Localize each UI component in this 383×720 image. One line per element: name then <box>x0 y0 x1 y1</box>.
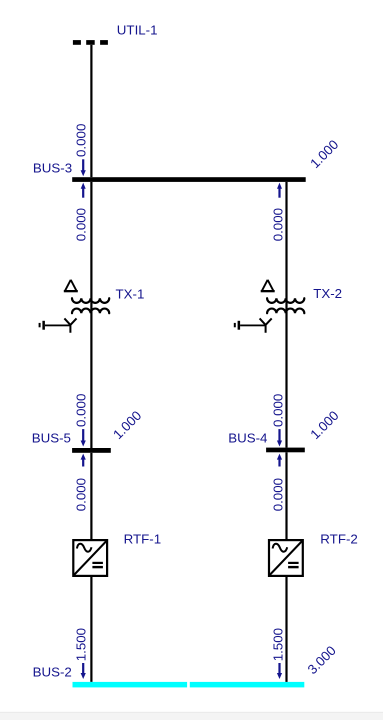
svg-text:RTF-1: RTF-1 <box>124 531 162 546</box>
flow arrow down into BUS-5 <box>81 429 86 446</box>
wye symbol TX-2 <box>260 318 272 332</box>
wire TX-1 to BUS-5 <box>90 314 92 449</box>
bus BUS-5 <box>72 448 111 453</box>
utility source UTIL-1 <box>73 40 108 45</box>
wire RTF-1 to BUS-2 <box>90 577 92 682</box>
wye symbol TX-1 <box>64 318 76 332</box>
transformer TX-2 primary winding <box>267 298 304 303</box>
ground symbol TX-1 <box>39 321 45 330</box>
wire BUS-4 to RTF-2 <box>285 452 287 539</box>
rectifier RTF-1 <box>73 540 107 576</box>
bus BUS-4 <box>266 448 305 453</box>
svg-text:UTIL-1: UTIL-1 <box>117 23 158 38</box>
flow arrow down into BUS-2 (right) <box>277 663 282 679</box>
transformer TX-2 delta symbol <box>261 280 275 293</box>
bus BUS-3 <box>72 177 306 182</box>
svg-text:0.000: 0.000 <box>271 208 286 241</box>
wire BUS-3 to TX-2 <box>285 182 287 314</box>
svg-text:BUS-5: BUS-5 <box>32 430 71 445</box>
svg-text:0.000: 0.000 <box>271 478 286 511</box>
svg-text:0.000: 0.000 <box>74 124 89 157</box>
svg-text:0.000: 0.000 <box>74 394 89 427</box>
wire ground to wye TX-2 <box>240 325 266 327</box>
flow arrow down into BUS-3 <box>81 159 86 176</box>
flow arrow down into BUS-4 <box>277 429 282 446</box>
wire RTF-2 to BUS-2 <box>285 577 287 682</box>
bus BUS-2 right segment <box>190 682 304 688</box>
flow arrow up out of BUS-3 (left branch) <box>81 183 86 198</box>
svg-text:BUS-3: BUS-3 <box>33 161 72 176</box>
svg-text:0.000: 0.000 <box>74 208 89 241</box>
transformer TX-1 secondary winding <box>72 309 109 314</box>
flow arrow up out of BUS-4 <box>277 454 282 467</box>
rectifier RTF-2 <box>269 540 303 576</box>
svg-text:0.000: 0.000 <box>271 394 286 427</box>
bus BUS-2 left segment <box>73 682 188 688</box>
flow arrow down into BUS-2 (left) <box>81 663 86 679</box>
ground symbol TX-2 <box>234 321 240 330</box>
svg-text:1.500: 1.500 <box>74 628 89 661</box>
wire ground to wye TX-1 <box>45 325 71 327</box>
wire UTIL-1 to BUS-3 <box>90 45 92 177</box>
wire TX-2 to BUS-4 <box>285 314 287 448</box>
wire BUS-5 to RTF-1 <box>90 453 92 539</box>
flow arrow up out of BUS-3 (right branch) <box>277 183 282 198</box>
svg-text:0.000: 0.000 <box>74 478 89 511</box>
svg-text:BUS-2: BUS-2 <box>33 664 72 679</box>
svg-text:BUS-4: BUS-4 <box>228 430 268 445</box>
wire BUS-3 to TX-1 <box>90 182 92 314</box>
svg-text:TX-2: TX-2 <box>313 286 342 301</box>
transformer TX-1 primary winding <box>72 298 109 303</box>
flow arrow up out of BUS-5 <box>81 454 86 467</box>
svg-text:TX-1: TX-1 <box>116 286 145 301</box>
transformer TX-1 delta symbol <box>64 280 78 293</box>
svg-text:1.500: 1.500 <box>271 628 286 661</box>
transformer TX-2 secondary winding <box>267 309 304 314</box>
svg-text:RTF-2: RTF-2 <box>320 531 358 546</box>
